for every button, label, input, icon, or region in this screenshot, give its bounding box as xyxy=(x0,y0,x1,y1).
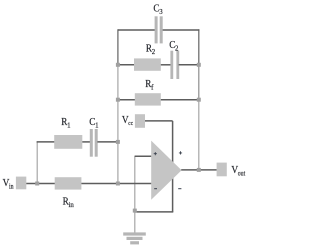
svg-text:R1: R1 xyxy=(61,117,71,130)
junction : input riser / main input wire xyxy=(35,182,39,186)
wire : R1 to C1 segment xyxy=(82,141,90,143)
wire : non-inverting input segment xyxy=(135,155,152,157)
wire : input branch riser xyxy=(36,142,38,184)
wire : C1 to left rail segment xyxy=(97,141,118,143)
resistor Rf xyxy=(135,79,161,106)
wire : riser to R1 segment xyxy=(37,141,55,143)
terminal Vcc xyxy=(122,114,145,128)
junction : left rail / R1-C1 branch xyxy=(116,140,120,144)
capacitor C2 xyxy=(169,40,179,79)
svg-text:Vout: Vout xyxy=(231,165,245,178)
wire : right feedback rail upper segment xyxy=(198,29,200,65)
wire : C3 branch top-left segment xyxy=(118,29,156,31)
capacitor C1 xyxy=(89,117,99,157)
resistor R1 xyxy=(54,117,82,149)
svg-text:C2: C2 xyxy=(169,40,179,53)
wire : left feedback rail lower segment xyxy=(117,65,119,184)
junction : right rail / Rf branch xyxy=(197,98,201,102)
node : supply-side plus label xyxy=(179,151,182,154)
wire : Rf to right rail segment xyxy=(161,99,199,101)
wire : Vcc feed vertical through op-amp down to ground run xyxy=(172,121,174,212)
wire : ground riser xyxy=(134,156,136,233)
svg-text:R2: R2 xyxy=(146,43,156,56)
junction : left rail / Rf branch xyxy=(116,98,120,102)
wire : Vcc feed horizontal xyxy=(145,120,173,122)
wire : right feedback rail lower segment xyxy=(198,100,200,170)
resistor R2 xyxy=(134,43,161,71)
op-amp U1 xyxy=(151,141,181,200)
wire : op-amp output segment xyxy=(181,169,217,171)
wire : C3 branch top-right segment xyxy=(162,29,200,31)
wire : Rin to op-amp inverting input segment xyxy=(81,183,151,185)
resistor Rin xyxy=(55,177,82,209)
svg-text:Rin: Rin xyxy=(63,196,75,209)
wire : R2 branch left segment xyxy=(118,64,135,66)
svg-text:Vcc: Vcc xyxy=(122,114,134,127)
capacitor C3 xyxy=(153,3,163,43)
wire : Rf branch left segment xyxy=(118,99,135,101)
wire : C2 to right rail segment xyxy=(179,64,199,66)
svg-text:C1: C1 xyxy=(89,117,99,130)
junction : right rail / C2 branch xyxy=(197,63,201,67)
wire : Vin to Rin main segment xyxy=(26,183,55,185)
svg-text:Vin: Vin xyxy=(3,178,15,191)
junction : right rail / output wire xyxy=(197,168,201,172)
ground xyxy=(123,232,146,244)
wire : op-amp bottom pin horizontal to ground riser xyxy=(135,211,174,213)
junction : left rail / R2 branch xyxy=(116,63,120,67)
wire : right feedback rail middle segment xyxy=(198,65,200,100)
terminal Vin xyxy=(3,177,27,191)
node : supply-side minus label xyxy=(178,188,181,190)
junction : left rail / main input wire xyxy=(116,182,120,186)
svg-text:C3: C3 xyxy=(153,3,163,16)
svg-text:Rf: Rf xyxy=(145,79,154,92)
wire : left feedback rail upper segment xyxy=(117,29,119,65)
terminal Vout xyxy=(217,163,246,178)
wire : R2 to C2 segment xyxy=(161,64,171,66)
junction : ground riser / bottom pin wire xyxy=(133,209,137,213)
